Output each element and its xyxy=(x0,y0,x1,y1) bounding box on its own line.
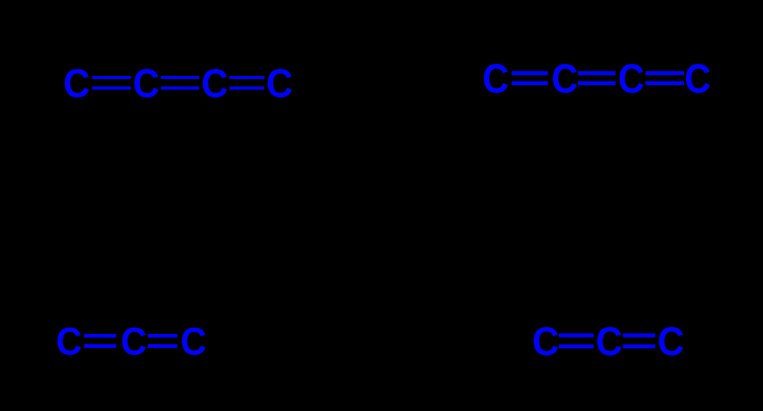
double bond C3=C4 of TR (lower line) xyxy=(646,81,685,85)
double bond C1=C2 of BR (upper line) xyxy=(559,333,594,337)
double bond C2=C3 of TL (upper line) xyxy=(161,76,199,79)
svg-text:C: C xyxy=(56,319,82,363)
svg-text:C: C xyxy=(133,62,160,107)
double bond C1=C2 of TL (lower line) xyxy=(92,87,131,90)
double bond C2=C3 of BL (lower line) xyxy=(148,344,178,348)
svg-text:C: C xyxy=(63,62,90,107)
svg-text:C: C xyxy=(266,62,293,107)
svg-text:C: C xyxy=(201,62,228,107)
svg-text:C: C xyxy=(532,320,559,365)
svg-text:C: C xyxy=(685,57,711,102)
double bond C1=C2 of BL (lower line) xyxy=(84,344,116,348)
svg-text:C: C xyxy=(181,319,207,363)
double bond C2=C3 of TR (upper line) xyxy=(578,71,616,75)
double bond C2=C3 of BL (upper line) xyxy=(148,334,178,338)
svg-text:C: C xyxy=(483,57,509,102)
double bond C3=C4 of TR (upper line) xyxy=(646,71,685,75)
double bond C2=C3 of BR (lower line) xyxy=(623,344,655,348)
structure allene B (bottom-right): C=C=C xyxy=(532,320,684,365)
svg-text:C: C xyxy=(618,57,644,102)
double bond C3=C4 of TL (upper line) xyxy=(229,76,264,79)
structure allene A (bottom-left): C=C=C xyxy=(56,319,207,363)
double bond C2=C3 of BR (upper line) xyxy=(623,333,655,337)
svg-text:C: C xyxy=(596,320,623,365)
svg-text:C: C xyxy=(121,319,147,363)
double bond C1=C2 of BR (lower line) xyxy=(559,344,594,348)
structure butatriene B (top-right): C=C=C=C xyxy=(483,57,711,102)
double bond C2=C3 of TR (lower line) xyxy=(578,81,616,85)
double bond C1=C2 of TR (upper line) xyxy=(512,71,548,75)
double bond C1=C2 of TR (lower line) xyxy=(512,81,548,85)
double bond C1=C2 of BL (upper line) xyxy=(84,334,116,338)
double bond C3=C4 of TL (lower line) xyxy=(229,87,264,90)
double bond C1=C2 of TL (upper line) xyxy=(92,76,131,79)
double bond C2=C3 of TL (lower line) xyxy=(161,87,199,90)
structure butatriene A (top-left): C=C=C=C xyxy=(63,62,293,107)
svg-text:C: C xyxy=(552,57,578,102)
svg-text:C: C xyxy=(658,320,685,365)
